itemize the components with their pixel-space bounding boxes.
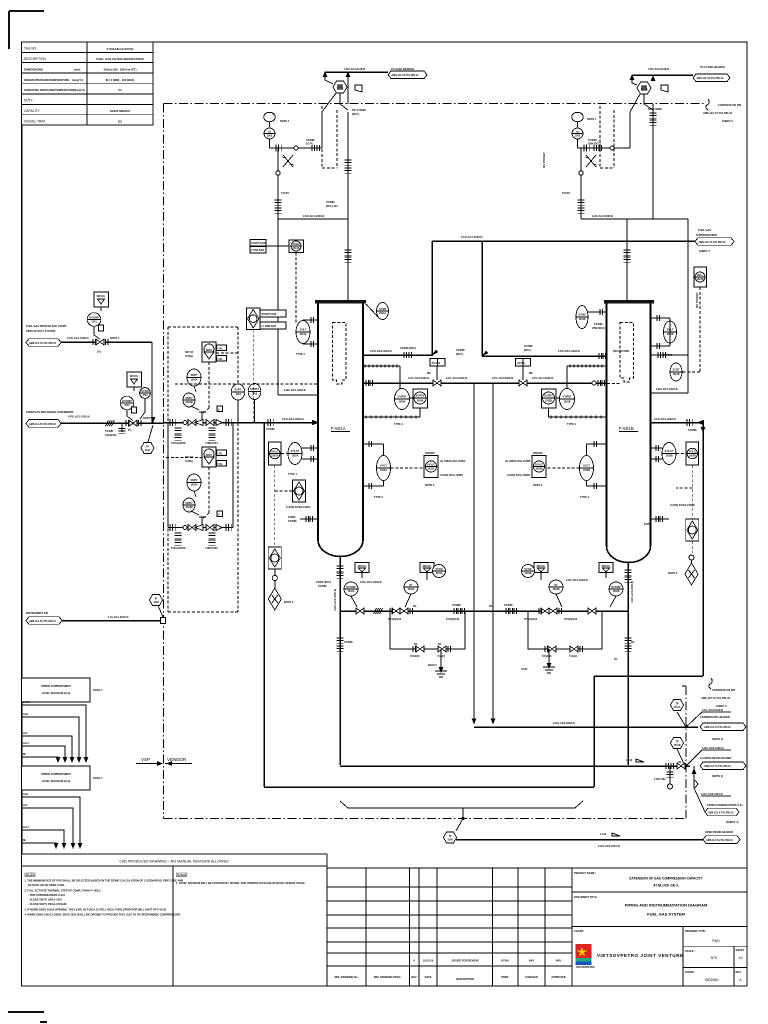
svg-text:NC: NC	[631, 641, 635, 644]
svg-text:3-PL-AC3-0109-N: 3-PL-AC3-0109-N	[702, 708, 723, 712]
svg-text:AMS-112-73-TX1-PID-10: AMS-112-73-TX1-PID-10	[704, 726, 732, 729]
svg-text:OPEN DRAIN HEADER: OPEN DRAIN HEADER	[705, 830, 733, 834]
svg-text:1509: 1509	[153, 601, 159, 604]
svg-text:SY/PDY: SY/PDY	[416, 395, 425, 398]
svg-text:VBM [DCC]: VBM [DCC]	[592, 327, 605, 330]
svg-text:NOTE 2: NOTE 2	[533, 483, 543, 487]
svg-text:VSP: VSP	[141, 757, 150, 762]
svg-text:[DCC]: [DCC]	[456, 353, 463, 356]
svg-text:(A) OPEN 510A-150DA: (A) OPEN 510A-150DA	[440, 460, 466, 463]
svg-text:F-501B: F-501B	[619, 426, 634, 431]
svg-text:3-DC-AC1-0000-N: 3-DC-AC1-0000-N	[630, 581, 634, 603]
svg-text:2-PL-AC3-0333-N: 2-PL-AC3-0333-N	[492, 376, 513, 380]
svg-text:SD/PV: SD/PV	[185, 397, 193, 400]
svg-text:SY/HS: SY/HS	[524, 568, 532, 571]
svg-text:DETAIL: DETAIL	[602, 565, 611, 568]
svg-text:(A) OPEN 510A-150DB: (A) OPEN 510A-150DB	[505, 460, 531, 463]
svg-text:SY/PDY: SY/PDY	[544, 395, 553, 398]
svg-text:SD/PY: SD/PY	[190, 374, 198, 377]
svg-text:NC SY0688: NC SY0688	[648, 107, 662, 111]
svg-text:FUEL GAS FILTER SEPARATORS: FUEL GAS FILTER SEPARATORS	[96, 57, 143, 61]
svg-text:HOLDS:: HOLDS:	[176, 872, 188, 876]
svg-text:1502B: 1502B	[612, 590, 619, 593]
svg-text:NVV: NVV	[529, 959, 535, 963]
svg-text:1503B: 1503B	[563, 401, 570, 404]
svg-text:1502B: 1502B	[665, 455, 672, 458]
svg-text:CONTINUE ON PID: CONTINUE ON PID	[718, 103, 741, 107]
svg-text:FUEL GAS SYSTEM: FUEL GAS SYSTEM	[647, 912, 685, 917]
svg-text:P&ID: P&ID	[712, 939, 720, 943]
svg-text:TYPE 2: TYPE 2	[296, 352, 305, 356]
svg-text:2-PG-OC1-0333-N: 2-PG-OC1-0333-N	[558, 349, 580, 353]
svg-text:AMS-112-78-TX1-PID-12: AMS-112-78-TX1-PID-12	[697, 77, 725, 80]
svg-text:S1AQ/4X3: S1AQ/4X3	[105, 434, 117, 437]
svg-text:SY/NO: SY/NO	[141, 390, 149, 393]
svg-text:1503B: 1503B	[535, 468, 542, 471]
svg-text:DESCRIPTION: DESCRIPTION	[456, 977, 474, 981]
svg-text:REV.: REV.	[736, 970, 742, 974]
svg-text:SC-PL: SC-PL	[306, 143, 314, 146]
svg-text:ON/OFF: ON/OFF	[533, 451, 543, 455]
svg-text:SY0688: SY0688	[594, 323, 603, 326]
svg-text:CHECKED: CHECKED	[525, 975, 538, 979]
svg-text:2-DC-OC1-0333-N: 2-DC-OC1-0333-N	[360, 580, 382, 584]
svg-text:4-RV-AC3-0118-N: 4-RV-AC3-0118-N	[344, 67, 365, 71]
svg-text:TO SAFE HEADER: TO SAFE HEADER	[391, 67, 414, 71]
svg-text:UY/PDT: UY/PDT	[398, 396, 407, 399]
svg-text:1501B: 1501B	[640, 89, 647, 92]
svg-text:NC: NC	[438, 643, 442, 646]
svg-text:TYPE 4: TYPE 4	[567, 422, 576, 426]
svg-text:1509: 1509	[447, 839, 453, 842]
svg-text:1501: 1501	[91, 321, 97, 324]
svg-text:(barg/°C): (barg/°C)	[74, 88, 85, 92]
svg-text:SY0688: SY0688	[326, 201, 335, 204]
svg-text:-: -	[120, 99, 121, 103]
svg-text:2-HV-AC1-0333-N: 2-HV-AC1-0333-N	[592, 214, 613, 218]
svg-text:3-DC-AC1-0000-N: 3-DC-AC1-0000-N	[333, 589, 337, 611]
svg-text:1504A: 1504A	[190, 379, 197, 382]
svg-text:CLOSED DRAIN HEADER: CLOSED DRAIN HEADER	[700, 756, 732, 760]
svg-text:100000 NM3/DAY: 100000 NM3/DAY	[110, 109, 131, 113]
svg-text:1503B: 1503B	[583, 469, 590, 472]
svg-text:1502A: 1502A	[347, 590, 354, 593]
svg-text:2-HV-AC1-0333-N: 2-HV-AC1-0333-N	[303, 214, 324, 218]
svg-text:SY/ST: SY/ST	[673, 369, 680, 372]
svg-text:DETAIL: DETAIL	[97, 295, 106, 298]
svg-text:(NOTE 2): (NOTE 2)	[712, 774, 723, 778]
svg-text:1502A: 1502A	[407, 588, 414, 591]
svg-text:AT/AY: AT/AY	[521, 668, 528, 671]
svg-text:CAD PRODUCED DRAWING – NO MA: CAD PRODUCED DRAWING – NO MANUAL REVISIO…	[119, 860, 229, 864]
svg-text:LEVEL DIAGRAM (mm): LEVEL DIAGRAM (mm)	[42, 779, 71, 783]
svg-text:(A): (A)	[97, 350, 101, 354]
svg-text:CONDENSATE HEADER: CONDENSATE HEADER	[700, 715, 730, 719]
svg-text:VENDOR: VENDOR	[167, 757, 187, 762]
svg-text:[DCC] SY0688: [DCC] SY0688	[613, 350, 630, 353]
svg-text:1511A: 1511A	[674, 706, 681, 709]
svg-text:(mm): (mm)	[74, 67, 80, 71]
svg-text:C PAB DAB: C PAB DAB	[251, 249, 264, 252]
svg-text:SHEET 2: SHEET 2	[722, 119, 733, 123]
svg-text:AMS-112-78-TX1-PID-12: AMS-112-78-TX1-PID-12	[392, 74, 420, 77]
svg-text:1503A: 1503A	[416, 400, 423, 403]
svg-text:SY/PS: SY/PS	[379, 308, 386, 311]
svg-text:SY/HS: SY/HS	[435, 568, 443, 571]
svg-text:F-501A/B (2x100%): F-501A/B (2x100%)	[107, 47, 134, 51]
svg-text:SY0688 [DCC]: SY0688 [DCC]	[400, 347, 416, 350]
svg-text:SY0688: SY0688	[344, 641, 353, 644]
svg-text:(NOTE 1): (NOTE 1)	[712, 737, 723, 741]
svg-text:LEVEL DIAGRAM (mm): LEVEL DIAGRAM (mm)	[42, 691, 71, 695]
svg-text:SY/LT: SY/LT	[300, 329, 307, 332]
svg-text:SY0688: SY0688	[688, 429, 697, 432]
svg-text:321: 321	[118, 119, 123, 123]
svg-text:NC: NC	[678, 761, 682, 764]
svg-text:FUEL GAS FROM BLACK START: FUEL GAS FROM BLACK START	[26, 324, 67, 328]
svg-text:AMS-112-73-TX1-PID-10: AMS-112-73-TX1-PID-10	[704, 765, 732, 768]
svg-text:2-FG-AC1-0333-N: 2-FG-AC1-0333-N	[461, 235, 482, 239]
svg-text:PROJECT NAME :: PROJECT NAME :	[574, 871, 596, 875]
svg-text:NVV: NVV	[556, 959, 562, 963]
svg-text:SY/LIC: SY/LIC	[535, 464, 543, 467]
svg-text:SHEET 2: SHEET 2	[699, 249, 710, 253]
svg-text:2-OH-AC3-0107-N: 2-OH-AC3-0107-N	[598, 844, 620, 848]
svg-text:1502A: 1502A	[271, 455, 278, 458]
svg-text:PSLL: PSLL	[697, 274, 704, 277]
svg-text:A: A	[218, 409, 220, 412]
svg-text:- CLOSE SDV'S 1504A-1504A/B: - CLOSE SDV'S 1504A-1504A/B	[28, 902, 67, 906]
svg-text:FUEL GAS: FUEL GAS	[698, 228, 711, 232]
svg-text:TAG NO.: TAG NO.	[24, 47, 37, 51]
svg-text:PHASE :: PHASE :	[685, 970, 696, 974]
svg-text:AMS-112-45-TX1-PID-10: AMS-112-45-TX1-PID-10	[29, 620, 57, 623]
svg-text:1504: 1504	[235, 393, 241, 396]
svg-text:PIPING AND INSTRUMENTATION DIA: PIPING AND INSTRUMENTATION DIAGRAM	[625, 903, 708, 908]
svg-text:1-IA-AC1-2312-N: 1-IA-AC1-2312-N	[108, 615, 128, 619]
svg-text:IN3/AY1: IN3/AY1	[428, 664, 437, 667]
svg-text:SY/LIC: SY/LIC	[427, 464, 435, 467]
svg-text:NTHH: NTHH	[501, 959, 508, 963]
svg-text:VIETSOVPETRO: VIETSOVPETRO	[576, 966, 595, 969]
svg-text:LL 0MB DAB: LL 0MB DAB	[262, 325, 277, 328]
svg-text:SY0AQ/4X3: SY0AQ/4X3	[446, 618, 460, 621]
svg-text:3-GC-AC2-0110-N: 3-GC-AC2-0110-N	[701, 792, 723, 796]
svg-text:AMS-112-73-TX1-PID-10: AMS-112-73-TX1-PID-10	[701, 696, 731, 700]
svg-text:1501B: 1501B	[578, 318, 585, 321]
svg-text:CONTINUE ON PID: CONTINUE ON PID	[712, 688, 735, 692]
svg-text:F-501A: F-501A	[331, 426, 346, 431]
svg-text:1502A: 1502A	[291, 455, 298, 458]
svg-text:DY/DISP: DY/DISP	[122, 400, 132, 403]
svg-text:2-HG-AC3-0333-N: 2-HG-AC3-0333-N	[553, 721, 575, 725]
svg-text:1501: 1501	[124, 404, 130, 407]
svg-text:SHEET 2: SHEET 2	[716, 704, 727, 708]
svg-text:2-PL-OC3-0333-N: 2-PL-OC3-0333-N	[408, 376, 429, 380]
svg-text:NO POCKET: NO POCKET	[542, 152, 546, 168]
svg-text:1503B: 1503B	[545, 400, 552, 403]
svg-text:A: A	[413, 959, 415, 963]
svg-text:INSTRUMENT AIR: INSTRUMENT AIR	[26, 611, 48, 615]
svg-text:DETAIL: DETAIL	[423, 565, 432, 568]
svg-text:5 PAL/4X3: 5 PAL/4X3	[654, 778, 666, 781]
svg-text:SY0688: SY0688	[456, 349, 465, 352]
svg-text:SY0087: SY0087	[105, 430, 114, 433]
svg-text:DY/DISP: DY/DISP	[346, 586, 356, 589]
svg-text:FC: FC	[128, 429, 131, 432]
svg-text:UPPER COMPARTMENT: UPPER COMPARTMENT	[41, 684, 71, 688]
svg-text:AD DO: AD DO	[517, 362, 525, 365]
svg-text:NC: NC	[414, 643, 418, 646]
svg-text:MC: MC	[427, 371, 431, 375]
svg-text:DY/DISP: DY/DISP	[611, 586, 621, 589]
svg-text:1:100: 1:100	[600, 833, 607, 836]
svg-text:TYPE 2: TYPE 2	[374, 495, 383, 499]
svg-text:TYPE 4: TYPE 4	[394, 422, 403, 426]
svg-text:1502: 1502	[252, 393, 258, 396]
svg-text:NOTE 4: NOTE 4	[143, 416, 153, 420]
svg-text:SY0AQ/4X3: SY0AQ/4X3	[564, 618, 578, 621]
svg-text:1. THE MINIMUM SIZE OF PSV SHA: 1. THE MINIMUM SIZE OF PSV SHALL BE SELE…	[25, 879, 184, 883]
svg-text:2-PG-AC1-2101-N: 2-PG-AC1-2101-N	[68, 415, 90, 419]
svg-text:1501A: 1501A	[299, 333, 306, 336]
svg-text:SY0AQ/4X3: SY0AQ/4X3	[524, 618, 538, 621]
svg-text:TYPE 3: TYPE 3	[580, 495, 589, 499]
svg-text:OPERATING PRESSURE/TEMPERATURE: OPERATING PRESSURE/TEMPERATURE	[24, 88, 75, 92]
svg-text:NL: NL	[23, 838, 27, 842]
svg-text:NTS: NTS	[711, 956, 717, 960]
svg-text:NL: NL	[23, 752, 27, 756]
svg-text:NOTE 1: NOTE 1	[587, 117, 597, 121]
svg-text:NOTE 1: NOTE 1	[280, 119, 290, 123]
svg-text:DETAIL: DETAIL	[130, 375, 139, 378]
svg-text:DATE: DATE	[425, 975, 432, 979]
svg-text:1501B: 1501B	[524, 572, 531, 575]
svg-text:UY/LT: UY/LT	[380, 465, 387, 468]
svg-text:Y1AQ4: Y1AQ4	[569, 655, 578, 658]
svg-text:F/AL: F/AL	[218, 348, 224, 351]
svg-text:SY0688: SY0688	[318, 585, 327, 588]
svg-text:AMS-112-73-TX1-PID-10: AMS-112-73-TX1-PID-10	[706, 839, 734, 842]
svg-text:TYPE 3: TYPE 3	[663, 353, 672, 357]
svg-text:VESSEL TRIM: VESSEL TRIM	[24, 119, 45, 123]
svg-text:1510B: 1510B	[672, 373, 679, 376]
svg-text:UPPER COMPARTMENT: UPPER COMPARTMENT	[41, 772, 71, 776]
svg-text:1501A: 1501A	[336, 88, 343, 91]
svg-text:NOTE 2: NOTE 2	[425, 483, 435, 487]
svg-text:1502B: 1502B	[689, 455, 696, 458]
svg-text:SY0675 DAB: SY0675 DAB	[251, 242, 266, 245]
svg-text:SY/LGT: SY/LGT	[665, 450, 674, 453]
svg-text:2-BA-OC1-0333-N: 2-BA-OC1-0333-N	[284, 388, 306, 392]
svg-text:MY0675 DAB: MY0675 DAB	[262, 313, 277, 316]
svg-text:1503: 1503	[267, 135, 273, 138]
svg-text:FROM GAS DISCHARGE SCRUBBERS: FROM GAS DISCHARGE SCRUBBERS	[26, 410, 74, 414]
svg-text:SY/NS: SY/NS	[578, 314, 586, 317]
svg-text:TYPE 1: TYPE 1	[288, 472, 297, 476]
svg-text:F/AL: F/AL	[218, 358, 224, 361]
svg-text:(barg/°C): (barg/°C)	[72, 78, 83, 82]
svg-text:BY-PASS VALVE OPEN CASE.: BY-PASS VALVE OPEN CASE.	[28, 883, 65, 887]
svg-text:2-PL-AC3-0333-N: 2-PL-AC3-0333-N	[446, 376, 467, 380]
svg-text:LAH: LAH	[23, 792, 28, 796]
svg-text:NC: NC	[489, 605, 493, 608]
svg-text:YBM [DCC]: YBM [DCC]	[588, 143, 601, 146]
svg-text:[DCC]: [DCC]	[352, 113, 359, 116]
svg-text:NOTE 3: NOTE 3	[668, 571, 678, 575]
svg-text:PRS5 OUTLET SYSTEM: PRS5 OUTLET SYSTEM	[26, 329, 55, 333]
svg-text:2-PL-OC1-0333-N: 2-PL-OC1-0333-N	[532, 376, 553, 380]
svg-text:UY/PDT: UY/PDT	[563, 396, 572, 399]
svg-text:MC: MC	[529, 371, 533, 375]
svg-text:NO POCKET: NO POCKET	[695, 292, 699, 308]
svg-text:2. FULL ACTUATE THERMAL STEP U: 2. FULL ACTUATE THERMAL STEP UP COMP. (T…	[25, 889, 101, 893]
svg-text:SY/LGT: SY/LGT	[291, 450, 300, 453]
svg-text:1501A: 1501A	[435, 572, 442, 575]
svg-text:2-PG-AC1-0109-N: 2-PG-AC1-0109-N	[67, 336, 89, 340]
svg-text:SY/PDT: SY/PDT	[250, 388, 259, 391]
svg-text:NC SY0688: NC SY0688	[352, 108, 366, 112]
svg-text:ISSUED FOR REVIEW: ISSUED FOR REVIEW	[452, 959, 479, 963]
svg-text:1/2: 1/2	[738, 956, 743, 960]
svg-text:NOTE 3: NOTE 3	[284, 600, 294, 604]
svg-text:DY/DISP: DY/DISP	[89, 317, 99, 320]
svg-text:1501: 1501	[142, 394, 148, 397]
svg-text:DRAWING TYPE:: DRAWING TYPE:	[685, 929, 706, 933]
svg-text:LAH: LAH	[23, 712, 28, 716]
svg-text:5Y1P2: 5Y1P2	[562, 191, 570, 195]
svg-text:5Y0AQ/4X3D: 5Y0AQ/4X3D	[171, 442, 186, 445]
svg-text:SY/LG: SY/LG	[689, 451, 696, 454]
svg-text:DY: DY	[554, 584, 558, 587]
svg-text:KO/BF: KO/BF	[644, 523, 652, 526]
svg-text:DETAIL: DETAIL	[358, 565, 367, 568]
svg-text:SET 63: SET 63	[185, 351, 194, 354]
svg-text:SY0688: SY0688	[452, 604, 461, 607]
svg-text:SY0AQ3: SY0AQ3	[542, 655, 552, 658]
svg-text:LALL: LALL	[23, 741, 30, 745]
svg-text:PREP.: PREP.	[501, 975, 509, 979]
svg-text:2-DC-OC1-0333-N: 2-DC-OC1-0333-N	[566, 578, 588, 582]
svg-text:HOLD 1: HOLD 1	[93, 688, 103, 692]
svg-text:2-BA-OC1-0333-N: 2-BA-OC1-0333-N	[656, 387, 678, 391]
svg-text:HOLD 1: HOLD 1	[93, 776, 103, 780]
svg-text:1504M: 1504M	[185, 401, 192, 404]
svg-text:UY/LT: UY/LT	[583, 465, 590, 468]
svg-text:SHEET: SHEET	[736, 948, 745, 952]
svg-text:4-RV-AC3-0118-N: 4-RV-AC3-0118-N	[648, 67, 669, 71]
svg-text:1517: 1517	[145, 449, 151, 452]
svg-text:SCALE :: SCALE :	[685, 949, 696, 953]
svg-text:[DCC] 4X1: [DCC] 4X1	[326, 205, 338, 208]
svg-text:3-FG-OC1-0333-N: 3-FG-OC1-0333-N	[282, 417, 304, 421]
svg-text:REV: REV	[411, 975, 417, 979]
svg-text:CLOSE 510A-150DB: CLOSE 510A-150DB	[507, 474, 530, 477]
svg-text:01.03.19: 01.03.19	[423, 959, 434, 963]
svg-text:AMS-112-5-TX1-PID-10: AMS-112-5-TX1-PID-10	[708, 811, 734, 814]
svg-text:- TRIP SUPERHEATERS S-001: - TRIP SUPERHEATERS S-001	[28, 893, 66, 897]
svg-text:APPROVED: APPROVED	[551, 975, 566, 979]
svg-text:DY: DY	[409, 584, 413, 587]
svg-text:1511B: 1511B	[674, 744, 681, 747]
svg-text:(SHEET 4): (SHEET 4)	[726, 820, 739, 824]
svg-text:1510B: 1510B	[696, 278, 703, 281]
svg-text:1501A: 1501A	[379, 312, 386, 315]
svg-text:LAL: LAL	[23, 731, 28, 735]
svg-text:BIDDING: BIDDING	[705, 978, 719, 982]
svg-text:DESCRIPTION: DESCRIPTION	[24, 57, 46, 61]
svg-text:SY0688: SY0688	[504, 604, 513, 607]
svg-text:KO/BF: KO/BF	[288, 516, 296, 519]
svg-text:3-PG-OC3-0333-N: 3-PG-OC3-0333-N	[370, 349, 392, 353]
svg-text:3. IF WHEN SDSV-1503A OPENING,: 3. IF WHEN SDSV-1503A OPENING, THE LEVEL…	[25, 908, 167, 912]
svg-text:3-DC-AC3-0106-N: 3-DC-AC3-0106-N	[702, 746, 724, 750]
svg-text:1503A: 1503A	[427, 468, 434, 471]
svg-text:Y1BK3/4X4: Y1BK3/4X4	[205, 442, 218, 445]
svg-text:CLOSE 510DA-150DA: CLOSE 510DA-150DA	[286, 506, 311, 509]
svg-text:SY/PT: SY/PT	[235, 389, 242, 392]
svg-text:DOCUMENT TITLE :: DOCUMENT TITLE :	[574, 895, 599, 899]
svg-text:SUPERHEATERS: SUPERHEATERS	[696, 233, 717, 237]
svg-text:LAHH: LAHH	[23, 700, 30, 704]
svg-text:TO FLARE HEADER: TO FLARE HEADER	[700, 65, 725, 69]
svg-text:SY0688: SY0688	[288, 520, 297, 523]
svg-text:FROM SUPERHEATERS S-01: FROM SUPERHEATERS S-01	[707, 803, 743, 807]
svg-text:AT BLOCK GK-3,: AT BLOCK GK-3,	[653, 884, 679, 888]
svg-text:LALL: LALL	[23, 825, 30, 829]
svg-text:REF. DRAWING No.: REF. DRAWING No.	[335, 975, 359, 979]
svg-text:5Y1P2: 5Y1P2	[281, 191, 289, 195]
svg-text:O (Bar): O (Bar)	[185, 355, 193, 358]
svg-text:AMS-112-73-TX1-PID-10: AMS-112-73-TX1-PID-10	[703, 111, 733, 115]
svg-text:1503: 1503	[575, 135, 581, 138]
svg-text:1. LEVEL DIAGRAM WILL BE UPDAT: 1. LEVEL DIAGRAM WILL BE UPDATED BY VESS…	[176, 881, 306, 885]
svg-text:1503A: 1503A	[398, 401, 405, 404]
svg-text:CLIENT:: CLIENT:	[574, 929, 584, 933]
svg-text:PSHH: PSHH	[293, 243, 300, 246]
svg-text:SY0688: SY0688	[524, 345, 533, 348]
svg-text:1516A: 1516A	[292, 247, 299, 250]
svg-text:316mm (ID) - 3267mm (T/T): 316mm (ID) - 3267mm (T/T)	[103, 67, 136, 71]
svg-text:SC: SC	[614, 658, 618, 661]
svg-text:LAL: LAL	[23, 803, 28, 807]
svg-text:SY0AQ3: SY0AQ3	[410, 655, 420, 658]
svg-text:EXTENSION OF GAS COMPRESSION C: EXTENSION OF GAS COMPRESSION CAPACITY	[629, 877, 703, 881]
svg-text:SDFC: SDFC	[206, 349, 213, 352]
svg-text:DETAIL: DETAIL	[537, 565, 546, 568]
svg-text:SY/LG: SY/LG	[271, 451, 278, 454]
svg-text:CAPACITY: CAPACITY	[24, 109, 41, 113]
svg-text:CLOSE 510DA-150DN: CLOSE 510DA-150DN	[670, 504, 695, 507]
svg-text:3-FG-OC1-0333-N: 3-FG-OC1-0333-N	[654, 417, 676, 421]
svg-text:XS AC3: XS AC3	[432, 362, 441, 365]
svg-text:86 / 0 (MIN) - 100 (MAX): 86 / 0 (MIN) - 100 (MAX)	[106, 78, 135, 82]
svg-text:DUTY: DUTY	[24, 99, 34, 103]
svg-text:SY0688: SY0688	[266, 428, 275, 431]
svg-text:VIETSOVPETRO JOINT VENTURE: VIETSOVPETRO JOINT VENTURE	[597, 953, 684, 958]
svg-text:KO/BF [DCC]: KO/BF [DCC]	[316, 581, 331, 584]
svg-text:NC: NC	[413, 605, 417, 608]
svg-text:DESIGN PRESSURE/TEMPERATURE: DESIGN PRESSURE/TEMPERATURE	[24, 78, 69, 82]
svg-text:1502B: 1502B	[552, 588, 559, 591]
svg-text:1503A: 1503A	[380, 469, 387, 472]
svg-text:NOTES:: NOTES:	[25, 872, 37, 876]
svg-text:AMS-112-73-TX1-PID-03: AMS-112-73-TX1-PID-03	[29, 342, 57, 345]
svg-text:4. WHEN SDSV-1503 CLOSED, SDSV: 4. WHEN SDSV-1503 CLOSED, SDSV-1503 SHAL…	[25, 913, 182, 917]
svg-text:ON/OFF: ON/OFF	[425, 451, 435, 455]
svg-text:1:100: 1:100	[626, 759, 633, 762]
svg-text:DIMENSIONS: DIMENSIONS	[24, 67, 43, 71]
